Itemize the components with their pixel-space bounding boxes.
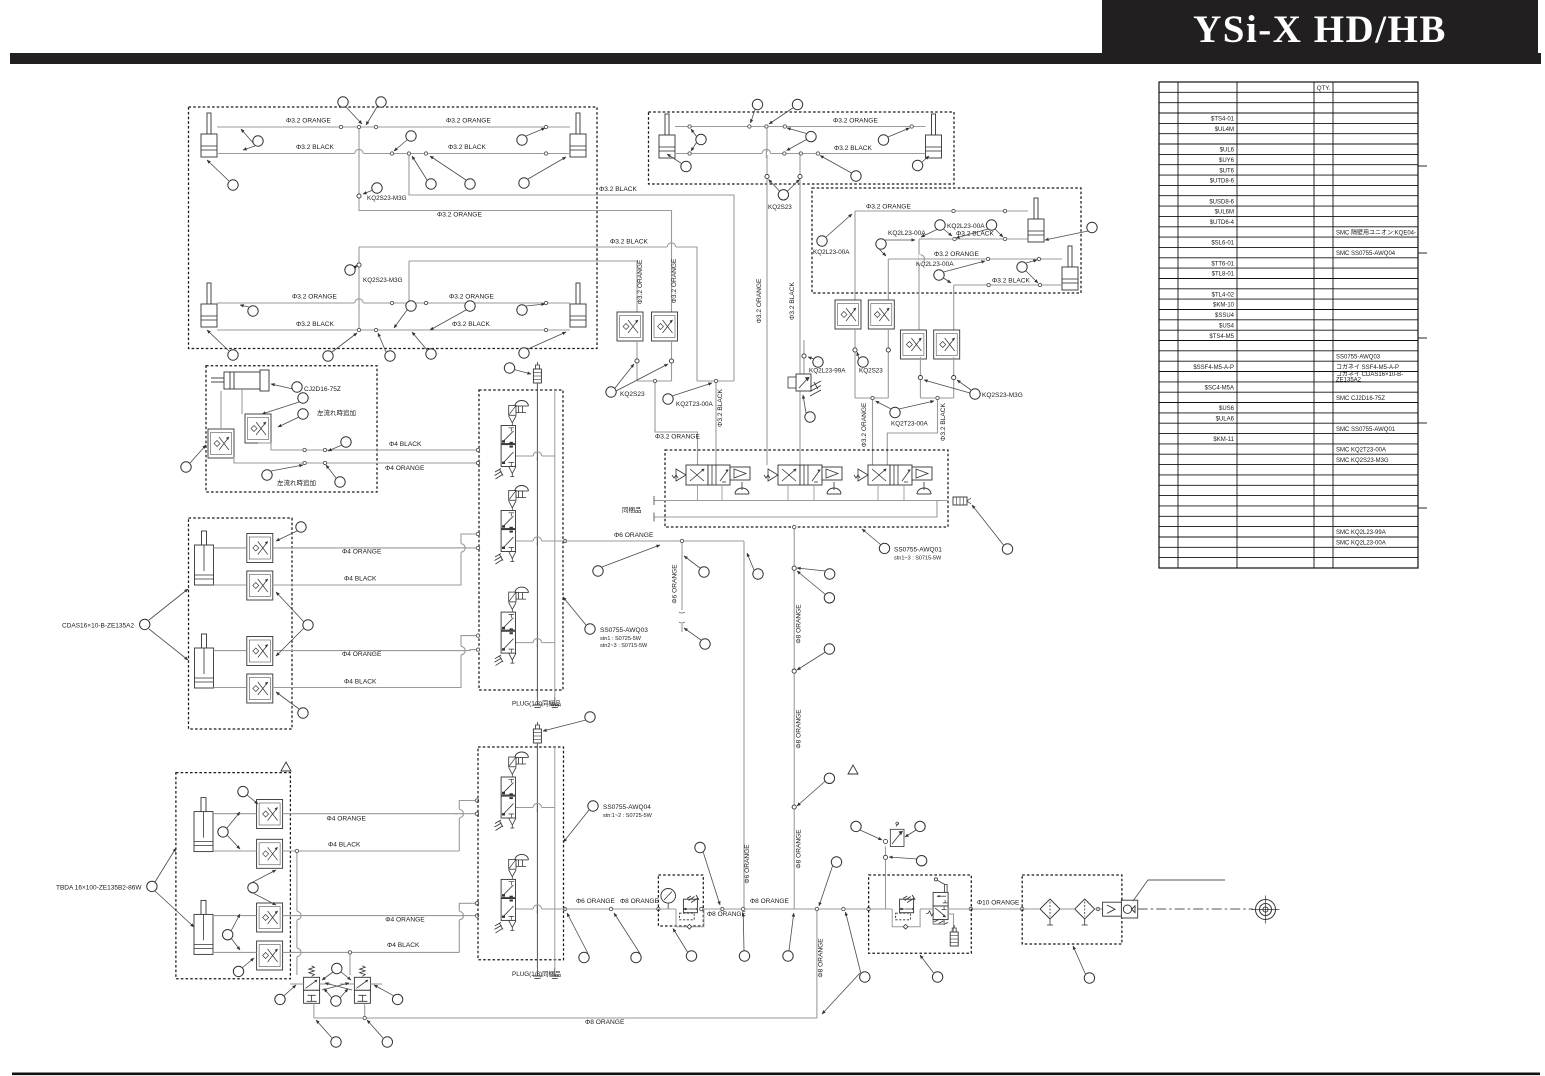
junction [544, 125, 547, 128]
solenoid valve E1 [495, 401, 529, 480]
svg-text:$US4: $US4 [1219, 323, 1235, 329]
wire drop to line L2 [359, 127, 672, 312]
svg-text:ZE135A2: ZE135A2 [1336, 378, 1362, 384]
svg-text:Φ4 BLACK: Φ4 BLACK [387, 942, 420, 949]
svg-text:$ULA6: $ULA6 [1216, 417, 1235, 423]
cylinder A2 [570, 113, 586, 157]
balloon callout [778, 190, 788, 200]
union fitting [669, 359, 673, 363]
junction [871, 396, 874, 399]
svg-text:SS0755-AWQ04: SS0755-AWQ04 [603, 804, 651, 811]
junction [476, 461, 479, 464]
parts list table [1159, 82, 1418, 568]
balloon callout [792, 99, 802, 109]
balloon callout [392, 994, 402, 1004]
svg-text:stn:1~2 : S0725-5W: stn:1~2 : S0725-5W [603, 813, 653, 819]
pilot regulator KQ2L23-99A [803, 340, 805, 374]
balloon callout [739, 951, 749, 961]
junction [357, 328, 360, 331]
svg-text:左流れ時追加: 左流れ時追加 [317, 408, 356, 417]
balloon callout [700, 639, 710, 649]
svg-text:$KM-10: $KM-10 [1213, 303, 1235, 309]
svg-text:$UT6: $UT6 [1219, 168, 1234, 174]
wires hand valves [290, 983, 304, 985]
balloon callout [663, 394, 673, 404]
cylinder C1 [1028, 198, 1044, 242]
station output stubs E [516, 455, 555, 457]
balloon callout [752, 99, 762, 109]
junction [783, 152, 786, 155]
junction [563, 907, 566, 910]
svg-text:Φ3.2 ORANGE: Φ3.2 ORANGE [756, 278, 763, 323]
cylinder H1 [194, 798, 213, 852]
balloon callout [140, 619, 150, 629]
svg-text:YSi-X HD/HB: YSi-X HD/HB [1193, 8, 1447, 51]
wire valve outputs to phi8 line [313, 1003, 315, 1018]
balloon callout [851, 171, 861, 181]
svg-text:SMC SS0755-AWQ04: SMC SS0755-AWQ04 [1336, 251, 1396, 257]
svg-text:Φ6 ORANGE: Φ6 ORANGE [576, 898, 615, 905]
svg-text:CDAS16×10-B-ZE135A2: CDAS16×10-B-ZE135A2 [62, 623, 134, 630]
svg-text:Φ3.2 BLACK: Φ3.2 BLACK [610, 239, 648, 246]
svg-text:$TS4-01: $TS4-01 [1211, 117, 1235, 123]
union fitting [798, 174, 802, 178]
svg-text:Φ3.2 BLACK: Φ3.2 BLACK [296, 321, 334, 328]
balloon callout [858, 357, 868, 367]
plug I rails [533, 968, 542, 979]
balloon callout [824, 593, 834, 603]
balloon callout [238, 786, 248, 796]
svg-text:$UL6: $UL6 [1220, 148, 1235, 154]
balloon callout [331, 1037, 341, 1047]
balloon callout [593, 566, 603, 576]
hand valve K2 [354, 966, 370, 1003]
balloon callout [426, 349, 436, 359]
svg-text:Φ3.2 BLACK: Φ3.2 BLACK [448, 144, 486, 151]
svg-text:PLUG(1/8)同梱品: PLUG(1/8)同梱品 [512, 699, 561, 708]
junction [295, 849, 298, 852]
svg-text:SS0755-AWQ03: SS0755-AWQ03 [1336, 354, 1381, 360]
cylinder C2 [1062, 246, 1078, 290]
junction [793, 525, 796, 528]
balloon callout [345, 265, 355, 275]
manifold E rails [536, 390, 538, 697]
svg-text:Φ3.2 BLACK: Φ3.2 BLACK [992, 278, 1030, 285]
svg-text:Φ8 ORANGE: Φ8 ORANGE [707, 911, 746, 918]
svg-text:$US6: $US6 [1219, 406, 1235, 412]
svg-text:$UTD8-6: $UTD8-6 [1210, 179, 1235, 185]
wire phi4 black H1 [213, 850, 257, 852]
union fitting [792, 669, 796, 673]
air prep box J [869, 875, 972, 953]
balloon callout [817, 236, 827, 246]
balloon callout [585, 624, 595, 634]
wire drop to line L4 [408, 261, 410, 303]
svg-text:同梱品: 同梱品 [622, 505, 642, 514]
warning triangle H [281, 762, 291, 771]
junction [390, 301, 393, 304]
svg-text:$UL6M: $UL6M [1215, 210, 1234, 216]
balloon callout [303, 620, 313, 630]
balloon callout [292, 382, 302, 392]
svg-text:Φ3.2 BLACK: Φ3.2 BLACK [940, 402, 947, 440]
speed controller H2 [257, 839, 283, 868]
balloon callout [519, 348, 529, 358]
component group box B [649, 112, 955, 184]
top border bar [10, 53, 1541, 64]
wire phi3.2 black C2 [954, 284, 1062, 286]
regulator M [676, 895, 704, 929]
union fitting [792, 805, 796, 809]
silencer above manifold E [533, 362, 541, 383]
svg-text:Φ3.2 BLACK: Φ3.2 BLACK [296, 144, 334, 151]
junction [424, 301, 427, 304]
svg-text:$TL4-02: $TL4-02 [1212, 292, 1235, 298]
junction [475, 902, 478, 905]
component group box H (TBDA) [176, 773, 291, 979]
svg-text:KQ2L23-00A: KQ2L23-00A [813, 249, 850, 256]
speed controller SC-R2 [868, 300, 894, 329]
svg-text:Φ4 BLACK: Φ4 BLACK [389, 441, 422, 448]
balloon callout [916, 856, 926, 866]
balloon callout [851, 821, 861, 831]
svg-text:SMC SS0755-AWQ01: SMC SS0755-AWQ01 [1336, 427, 1396, 433]
balloon callout [686, 951, 696, 961]
junction [475, 914, 478, 917]
balloon callout [631, 952, 641, 962]
svg-text:SMC KQ2S23-M3G: SMC KQ2S23-M3G [1336, 458, 1389, 464]
svg-text:$TL8-01: $TL8-01 [1212, 272, 1235, 278]
balloon callout [876, 239, 886, 249]
wire phi4 black D [258, 443, 479, 450]
junction [407, 301, 410, 304]
svg-text:Φ8 ORANGE: Φ8 ORANGE [585, 1019, 625, 1026]
solenoid valve F2 [764, 465, 842, 494]
balloon callout [825, 569, 835, 579]
svg-text:Φ3.2 ORANGE: Φ3.2 ORANGE [292, 294, 337, 301]
balloon callout [813, 357, 823, 367]
svg-text:Φ3.2 ORANGE: Φ3.2 ORANGE [934, 251, 979, 258]
balloon callout [406, 131, 416, 141]
svg-text:PLUG(1/8)同梱品: PLUG(1/8)同梱品 [512, 969, 561, 978]
svg-text:KQ2S23: KQ2S23 [768, 204, 792, 211]
wires inside J [869, 908, 893, 910]
junction [407, 152, 410, 155]
balloon callout [298, 708, 308, 718]
balloon callout [248, 306, 258, 316]
gauge/regulator box M [658, 875, 703, 926]
junction [303, 448, 306, 451]
junction [339, 125, 342, 128]
svg-text:stn1~3 : S0715-5W: stn1~3 : S0715-5W [894, 556, 942, 562]
cylinder CJ2D16-75Z [211, 370, 269, 391]
balloon callout (cylinder) [1087, 222, 1097, 232]
silencer at bank F outlet [953, 497, 971, 505]
balloon callout [298, 409, 308, 419]
wire phi4 black G2 [214, 687, 247, 689]
balloon callout [382, 1037, 392, 1047]
balloon callout [695, 842, 705, 852]
balloon callout [406, 301, 416, 311]
svg-text:Φ8 ORANGE: Φ8 ORANGE [796, 604, 803, 644]
speed controller G4 [247, 674, 273, 703]
speed controller H3 [257, 903, 283, 932]
wire black tee left [697, 380, 734, 382]
svg-text:Φ4 ORANGE: Φ4 ORANGE [342, 651, 382, 658]
svg-text:stn2~3 : S0715-5W: stn2~3 : S0715-5W [600, 643, 648, 649]
union fitting [918, 376, 922, 380]
solenoid valve E2 [495, 486, 529, 565]
solenoid valve F1 [672, 465, 750, 494]
union fitting [792, 566, 796, 570]
junction [544, 152, 547, 155]
svg-text:Φ4 BLACK: Φ4 BLACK [344, 679, 377, 686]
svg-text:Φ8 ORANGE: Φ8 ORANGE [750, 898, 789, 905]
wire black column C2 [953, 285, 955, 330]
wire phi4 black G1 [214, 584, 247, 586]
phi6 stub with break [681, 541, 683, 610]
balloon callout [253, 136, 263, 146]
station output stubs I [516, 807, 555, 809]
junction [475, 812, 478, 815]
junction [475, 799, 478, 802]
balloon callout [341, 437, 351, 447]
union fitting [357, 263, 361, 267]
balloon callout [1017, 262, 1027, 272]
air supply source symbol [1256, 900, 1276, 920]
svg-text:Φ3.2 BLACK: Φ3.2 BLACK [789, 281, 796, 319]
balloon callout [228, 180, 238, 190]
svg-text:KQ2L23-00A: KQ2L23-00A [888, 230, 926, 237]
warning triangle center [848, 765, 858, 774]
svg-text:$UL4M: $UL4M [1215, 127, 1234, 133]
balloon callout [579, 952, 589, 962]
svg-text:Φ3.2 ORANGE: Φ3.2 ORANGE [637, 259, 644, 304]
svg-text:Φ4 ORANGE: Φ4 ORANGE [327, 816, 367, 823]
balloon callout [588, 801, 598, 811]
balloon callout [932, 972, 942, 982]
svg-text:コガネイ SSF4-M5-A-P: コガネイ SSF4-M5-A-P [1336, 363, 1399, 371]
svg-text:Φ8 ORANGE: Φ8 ORANGE [796, 709, 803, 749]
wire orange column C2 [887, 259, 889, 300]
junction [815, 907, 818, 910]
junction [799, 152, 802, 155]
junction [374, 328, 377, 331]
junction [544, 301, 547, 304]
vertical feed through J [885, 847, 887, 910]
balloon callout [753, 569, 763, 579]
balloon callout [372, 183, 382, 193]
cylinder G2 [195, 634, 214, 688]
svg-text:Φ3.2 ORANGE: Φ3.2 ORANGE [833, 118, 878, 125]
svg-text:Φ3.2 ORANGE: Φ3.2 ORANGE [437, 212, 482, 219]
component group box G (CDAS16) [189, 518, 293, 729]
valve manifold E (SS0755-AWQ03) [479, 390, 563, 690]
union fitting [635, 359, 639, 363]
svg-text:Φ4 ORANGE: Φ4 ORANGE [342, 549, 382, 556]
balloon callout [335, 477, 345, 487]
junction [1037, 257, 1040, 260]
svg-text:Φ4 ORANGE: Φ4 ORANGE [385, 917, 425, 924]
svg-text:stn1 : S0725-5W: stn1 : S0725-5W [600, 636, 642, 642]
svg-text:SMC 隔壁用ユニオン:KQE04-: SMC 隔壁用ユニオン:KQE04- [1336, 228, 1416, 236]
svg-text:Φ3.2 ORANGE: Φ3.2 ORANGE [671, 258, 678, 303]
junction [303, 461, 306, 464]
wire phi3.2 orange B [675, 126, 926, 128]
balloon callout [585, 712, 595, 722]
junction [544, 328, 547, 331]
junction [476, 634, 479, 637]
balloon callout [465, 301, 475, 311]
junction [688, 125, 691, 128]
wire orange column C1 [854, 211, 856, 300]
bottom border line [12, 1073, 1540, 1076]
union fitting [357, 194, 361, 198]
balloon callout [248, 883, 258, 893]
speed controller H1 [257, 800, 283, 829]
supply drop from bank F [793, 525, 795, 909]
junction [987, 283, 990, 286]
svg-text:TBDA 16×100-ZE135B2-86W: TBDA 16×100-ZE135B2-86W [56, 885, 142, 892]
balloon callout [878, 135, 888, 145]
svg-text:Φ3.2 BLACK: Φ3.2 BLACK [834, 145, 872, 152]
svg-text:$SSF4-M5-A-P: $SSF4-M5-A-P [1193, 365, 1234, 371]
balloon callout [824, 644, 834, 654]
junction [476, 448, 479, 451]
junction [323, 461, 326, 464]
speed controller G3 [247, 637, 273, 666]
junction [783, 125, 786, 128]
balloon callout [385, 351, 395, 361]
cylinder A1 [201, 113, 217, 157]
speed controller SC-R1 [835, 300, 861, 329]
tube crossing hops [667, 245, 676, 248]
svg-text:Φ6 ORANGE: Φ6 ORANGE [744, 844, 751, 884]
balloon callout [517, 135, 527, 145]
speed controller G2 [247, 571, 273, 600]
balloon callout [824, 773, 834, 783]
wire black column C1 [918, 239, 920, 330]
silencer J [948, 914, 953, 931]
speed controller SC-R3 [900, 330, 926, 359]
wire phi3.2 orange column from B [766, 127, 768, 465]
svg-text:Φ3.2 ORANGE: Φ3.2 ORANGE [446, 118, 491, 125]
svg-text:SMC KQ2L23-99A: SMC KQ2L23-99A [1336, 530, 1386, 536]
wire phi4 orange H2 [213, 915, 257, 917]
pressure gauge [661, 889, 676, 904]
junction [936, 396, 939, 399]
wire phi3.2 black A-top [217, 153, 570, 155]
wire phi3.2 black C1 [919, 238, 1028, 240]
balloon callout [699, 567, 709, 577]
svg-text:Φ8 ORANGE: Φ8 ORANGE [620, 898, 659, 905]
cylinder A3 [201, 283, 217, 327]
svg-text:Φ3.2 BLACK: Φ3.2 BLACK [717, 388, 724, 426]
speed controller G1 [247, 534, 273, 563]
title block bar [1102, 0, 1538, 64]
wire phi4 orange G1 [214, 547, 247, 549]
balloon callout [181, 462, 191, 472]
balloon callout [296, 522, 306, 532]
wire phi3.2 orange C2 [888, 258, 1062, 260]
svg-text:SMC KQ2L23-00A: SMC KQ2L23-00A [1336, 541, 1386, 547]
balloon callout [517, 305, 527, 315]
junction [816, 152, 819, 155]
svg-text:左流れ時追加: 左流れ時追加 [277, 478, 316, 487]
svg-text:SMC CJ2D16-75Z: SMC CJ2D16-75Z [1336, 396, 1385, 402]
svg-text:Φ3.2 ORANGE: Φ3.2 ORANGE [861, 402, 868, 447]
cylinder A4 [570, 283, 586, 327]
valve drains to rail [697, 485, 699, 501]
junction [363, 1016, 366, 1019]
wire phi4 orange D [234, 457, 479, 463]
junction [657, 907, 660, 910]
balloon callout [218, 827, 228, 837]
junction [1096, 907, 1099, 910]
solenoid valve I1 [495, 752, 529, 831]
wire phi4 orange H1 [213, 813, 257, 815]
junction [842, 907, 845, 910]
svg-text:Φ4 ORANGE: Φ4 ORANGE [385, 465, 425, 472]
junction [867, 907, 870, 910]
balloon callout [332, 963, 342, 973]
solenoid valve I2 [495, 854, 529, 933]
svg-text:Φ3.2 ORANGE: Φ3.2 ORANGE [449, 294, 494, 301]
junction [653, 379, 656, 382]
wire black tee right [919, 357, 921, 398]
svg-text:Φ6 ORANGE: Φ6 ORANGE [672, 564, 679, 604]
junction [969, 907, 972, 910]
valve bank F (SS0755-AWQ01) [665, 450, 948, 527]
dash-dot supply line [1138, 908, 1253, 910]
svg-text:$SL6-01: $SL6-01 [1211, 241, 1234, 247]
plug E rails [533, 697, 542, 708]
balloon callout [331, 996, 341, 1006]
svg-text:Φ8 ORANGE: Φ8 ORANGE [796, 829, 803, 869]
svg-text:$UY6: $UY6 [1219, 158, 1235, 164]
union fitting [853, 348, 857, 352]
balloon callout [806, 131, 816, 141]
filter 2 [1075, 899, 1095, 925]
filter 1 [1040, 899, 1060, 925]
wire phi3.2 black B [675, 153, 926, 155]
junction [742, 907, 745, 910]
balloon callout [1002, 544, 1012, 554]
svg-text:$UTD6-4: $UTD6-4 [1210, 220, 1235, 226]
component group box C [812, 188, 1081, 293]
wire phi8 orange bottom run [314, 1017, 817, 1019]
svg-text:KQ2T23-00A: KQ2T23-00A [676, 401, 714, 408]
balloon callout [376, 97, 386, 107]
balloon callout [275, 994, 285, 1004]
junction [680, 539, 683, 542]
valve manifold I (SS0755-AWQ04) [478, 747, 564, 960]
wire phi3.2 black column from B [799, 154, 801, 466]
balloon callout [696, 134, 706, 144]
wire phi8 riser [816, 909, 818, 1018]
manifold I rails [536, 747, 538, 968]
wire phi3.2 black A-bottom [217, 329, 570, 331]
filter box K [1022, 875, 1122, 944]
svg-text:Φ3.2 BLACK: Φ3.2 BLACK [452, 321, 490, 328]
junction [357, 125, 360, 128]
balloon callout [1084, 973, 1094, 983]
svg-text:$TS4-M5: $TS4-M5 [1209, 334, 1234, 340]
wire phi3.2 orange A-bottom [217, 302, 570, 304]
junction [700, 907, 703, 910]
hand valve K1 [304, 966, 320, 1003]
solenoid valve F3 [854, 465, 932, 494]
